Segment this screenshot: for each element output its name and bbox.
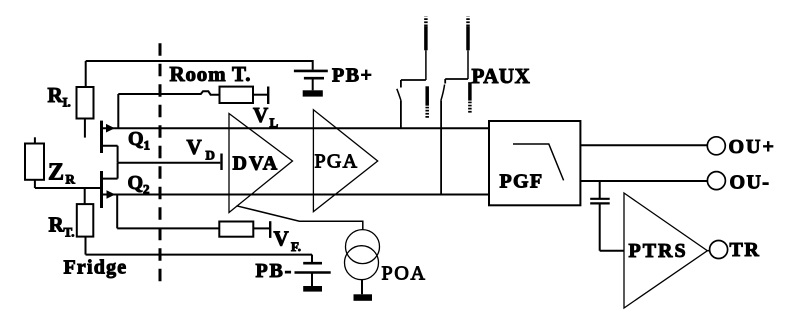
svg-text:Z: Z xyxy=(48,160,64,186)
svg-text:POA: POA xyxy=(382,263,427,285)
resistor Room T xyxy=(220,87,269,105)
svg-text:OU+: OU+ xyxy=(729,136,776,158)
terminal TR xyxy=(710,241,728,259)
svg-text:PGF: PGF xyxy=(500,171,544,193)
svg-text:PB-: PB- xyxy=(256,260,294,282)
svg-text:1: 1 xyxy=(144,138,151,153)
battery PB- xyxy=(295,255,331,292)
resistor Z_B xyxy=(25,137,44,188)
svg-text:Room T.: Room T. xyxy=(170,62,252,86)
output wire OU+ xyxy=(580,144,707,146)
PAUX left switch xyxy=(397,17,427,129)
amplifier DVA xyxy=(229,114,293,213)
svg-text:TR: TR xyxy=(730,239,761,261)
wire DVA to POA xyxy=(237,206,363,230)
svg-text:R: R xyxy=(66,172,76,187)
svg-text:I.: I. xyxy=(63,95,71,110)
svg-text:Q: Q xyxy=(128,172,144,194)
svg-text:Fridge: Fridge xyxy=(64,257,128,279)
battery PB+ xyxy=(294,60,328,97)
wire V_L with jog xyxy=(118,91,219,95)
amplifier PGA xyxy=(313,110,377,212)
wire bottom rail xyxy=(86,254,313,256)
svg-text:PB+: PB+ xyxy=(332,65,373,87)
PAUX right switch xyxy=(441,17,470,195)
svg-text:R: R xyxy=(49,213,65,237)
svg-text:PGA: PGA xyxy=(315,151,359,173)
dashed boundary line xyxy=(159,43,162,289)
svg-text:F.: F. xyxy=(291,239,301,254)
filter glyph xyxy=(513,144,564,180)
amplifier PTRS xyxy=(624,193,707,308)
svg-text:Q: Q xyxy=(128,128,144,150)
terminal OU+ xyxy=(707,137,725,155)
svg-text:OU-: OU- xyxy=(730,172,771,194)
svg-text:DVA: DVA xyxy=(233,153,280,175)
svg-text:D: D xyxy=(206,148,215,163)
wire top rail xyxy=(86,60,313,62)
resistor R_L top xyxy=(77,61,94,138)
wire to TR xyxy=(707,250,709,252)
output wire OU- xyxy=(580,180,707,182)
block PGF xyxy=(489,121,580,205)
svg-text:V: V xyxy=(253,103,268,127)
transistor Q2 xyxy=(35,163,118,208)
wire lower rail xyxy=(103,194,489,196)
capacitor xyxy=(590,181,624,251)
svg-text:PAUX: PAUX xyxy=(472,64,531,88)
transistor Q1 xyxy=(100,94,118,163)
svg-text:V: V xyxy=(274,227,289,251)
wire V_D middle xyxy=(118,162,221,164)
svg-text:T.: T. xyxy=(64,225,75,240)
terminal OU- xyxy=(707,172,725,190)
wire upper rail xyxy=(103,127,489,129)
svg-text:R: R xyxy=(48,83,64,107)
resistor V_F xyxy=(219,221,270,238)
svg-text:V: V xyxy=(187,135,202,159)
resistor R_L bottom xyxy=(77,188,94,255)
svg-text:PTRS: PTRS xyxy=(629,240,688,262)
wire V_F xyxy=(117,195,219,229)
svg-text:L: L xyxy=(270,115,279,130)
current source POA xyxy=(345,230,380,301)
